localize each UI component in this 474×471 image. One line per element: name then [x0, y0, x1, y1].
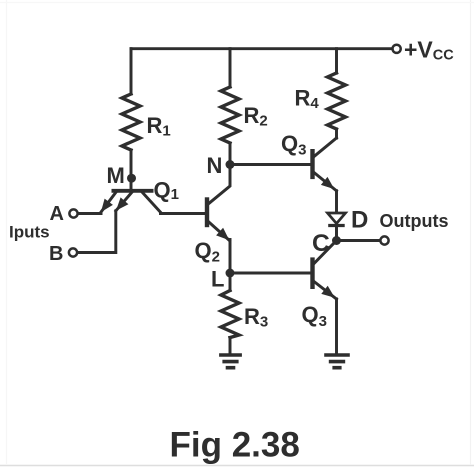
- resistor R4: [328, 49, 346, 138]
- wire input B: [78, 211, 116, 253]
- svg-text:C: C: [312, 230, 330, 257]
- svg-text:Q1: Q1: [154, 178, 179, 204]
- wire N to Q3 base: [230, 163, 311, 166]
- wire VCC rail: [131, 47, 391, 50]
- terminal +VCC: [393, 45, 401, 53]
- svg-text:Q3: Q3: [281, 131, 306, 159]
- transistor Q1 (multi-emitter): [101, 191, 161, 213]
- svg-text:B: B: [49, 243, 63, 265]
- diode D: [328, 213, 346, 241]
- svg-text:R3: R3: [244, 304, 268, 331]
- wire Q1 collector to Q2 base: [161, 212, 206, 215]
- node L: [226, 269, 235, 278]
- transistor Q3 (upper): [313, 138, 337, 212]
- resistor R1: [122, 49, 140, 190]
- terminal B: [69, 248, 77, 256]
- wire output: [337, 239, 380, 242]
- resistor R3: [221, 273, 239, 353]
- node N: [226, 160, 235, 169]
- terminal output: [380, 236, 388, 244]
- svg-text:R4: R4: [295, 86, 320, 113]
- resistor R2: [221, 49, 239, 165]
- terminal A: [69, 209, 77, 217]
- svg-text:Fig 2.38: Fig 2.38: [170, 426, 300, 465]
- svg-text:Outputs: Outputs: [380, 211, 449, 231]
- ground (right, under Q3 lower): [326, 355, 348, 368]
- svg-text:L: L: [211, 267, 224, 292]
- transistor Q3 (lower): [313, 241, 337, 354]
- svg-text:R2: R2: [244, 103, 268, 130]
- ground (left, under R3): [221, 355, 240, 368]
- svg-text:N: N: [207, 153, 223, 178]
- svg-text:A: A: [50, 203, 64, 225]
- svg-text:Q2: Q2: [195, 238, 220, 266]
- node C: [332, 236, 341, 245]
- svg-text:R1: R1: [147, 113, 171, 140]
- svg-text:D: D: [351, 207, 368, 234]
- transistor Q2: [207, 165, 230, 274]
- wire L to Q3 lower base: [230, 272, 311, 275]
- svg-text:+VCC: +VCC: [404, 37, 454, 64]
- svg-text:Q3: Q3: [302, 302, 327, 330]
- svg-text:Iputs: Iputs: [9, 223, 50, 242]
- svg-text:M: M: [107, 163, 125, 188]
- wire input A: [79, 212, 102, 215]
- node M: [127, 174, 136, 183]
